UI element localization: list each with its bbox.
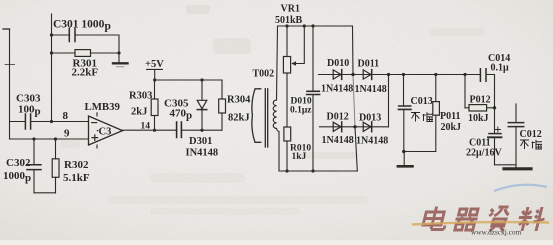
resistor R303 bbox=[154, 80, 156, 99]
capacitor C305 bbox=[177, 122, 182, 138]
wire rectifier row2 bbox=[320, 126, 389, 128]
wire VR1 top bar bbox=[278, 25, 353, 27]
wire row2 return up to row1 bbox=[388, 75, 390, 127]
watermark logo 电器资料 bbox=[422, 207, 548, 232]
diode D013 bbox=[363, 122, 371, 131]
label C012 (not fitted) Chinese vector bbox=[520, 140, 542, 149]
paper ghost smudges (decorative) bbox=[60, 5, 485, 215]
capacitor C014 bbox=[480, 69, 486, 82]
watermark underline swash bbox=[412, 222, 549, 224]
node junction D013 return on row1 bbox=[387, 73, 390, 76]
wire R301 row bbox=[52, 52, 76, 54]
op-amp U1 LMB39 / C3 bbox=[89, 116, 123, 145]
diode D011 bbox=[363, 70, 371, 79]
node junction cap branch top bbox=[311, 24, 314, 27]
wire op-amp output pin14 row bbox=[123, 129, 223, 131]
wire secondary bottom rail bbox=[279, 170, 357, 172]
capacitor D010 (0.1u) branch bbox=[312, 26, 314, 91]
wire R301 to ground corner bbox=[91, 52, 120, 54]
resistor P011 bbox=[435, 75, 437, 102]
diode D012 bbox=[333, 122, 341, 131]
watermark blue swoosh bbox=[494, 185, 547, 191]
wire C014/P012 right vertical bbox=[494, 75, 496, 134]
capacitor C301 bbox=[69, 29, 75, 42]
capacitor C011 electrolytic bbox=[489, 133, 501, 135]
node junction C301 row bbox=[50, 33, 53, 36]
power +5V tick bbox=[147, 68, 163, 70]
capacitor C013 bbox=[403, 75, 405, 106]
watermark char 料 bbox=[516, 207, 548, 231]
node junction C302 on pin9 bbox=[32, 137, 35, 140]
node junction R303 bottom bbox=[153, 129, 156, 132]
node junction cap branch bottom bbox=[311, 169, 314, 172]
node junction D301 bottom bbox=[200, 129, 203, 132]
node junction P012/C014 branch bbox=[463, 73, 466, 76]
resistor R302 bbox=[55, 139, 57, 159]
wire C013-P011 bottom connector bbox=[404, 151, 436, 153]
label C013 (not fitted) Chinese vector bbox=[411, 112, 433, 121]
node junction R301 row bbox=[50, 51, 53, 54]
wire P012 branch left vertical bbox=[464, 75, 466, 108]
capacitor C012 (dangling top) bbox=[515, 104, 517, 122]
node junction wiper top bbox=[303, 24, 306, 27]
node junction pot top bbox=[285, 24, 288, 27]
wire C011 bottom elbow bbox=[495, 164, 517, 166]
wire rectifier row1 bbox=[319, 74, 495, 76]
node junction feedback/ground bbox=[117, 51, 120, 54]
wire C301 row bbox=[52, 35, 120, 53]
diode D301 bbox=[201, 80, 203, 100]
node IN (left input terminal tick) bbox=[3, 28, 10, 30]
resistor P012 bbox=[465, 107, 495, 109]
wire pin8 row (C303 row to op-amp inverting input) bbox=[10, 121, 89, 123]
node junction +5V/R303 bbox=[153, 78, 156, 81]
wire +5V stem bbox=[154, 69, 156, 80]
node junction P012 right bbox=[493, 106, 496, 109]
transformer T002 core bbox=[265, 89, 267, 147]
capacitor C303 bbox=[25, 114, 30, 129]
ground (C013/P011) bbox=[403, 152, 405, 165]
wire C302-R302 bottom connector bbox=[34, 192, 56, 194]
node tick on input bus bbox=[5, 64, 15, 66]
watermark char 资 bbox=[486, 207, 511, 231]
diode D010 bbox=[333, 70, 341, 79]
resistor R010 bbox=[284, 127, 291, 141]
node junction C013 top bbox=[402, 73, 405, 76]
watermark char 器 bbox=[453, 209, 480, 230]
resistor R304 bbox=[221, 80, 223, 99]
potentiometer VR1 bbox=[286, 26, 288, 57]
wire pin9 row (to op-amp non-inverting input) bbox=[10, 138, 89, 140]
node junction C301-branch / pin8 wire bbox=[50, 120, 53, 123]
wire diode mid vertical (VR1 bar to bottom rail) bbox=[353, 26, 358, 171]
watermark char 电 bbox=[422, 207, 450, 230]
capacitor C302 bbox=[33, 139, 35, 164]
transformer T002 secondary winding bbox=[277, 26, 278, 100]
potentiometer VR1 wiper arrow bbox=[294, 26, 305, 64]
ground (output) bbox=[515, 165, 517, 168]
node junction R010 bottom bbox=[285, 169, 288, 172]
node junction row2 mid bbox=[353, 125, 356, 128]
node junction R302 on pin9 bbox=[54, 137, 57, 140]
node junction D301 top bbox=[200, 78, 203, 81]
node junction P011 top bbox=[434, 73, 437, 76]
resistor R301 bbox=[75, 50, 91, 57]
node junction row1 mid bbox=[351, 73, 354, 76]
wire left input vertical bus bbox=[9, 29, 11, 139]
ground (feedback network) bbox=[118, 53, 120, 62]
transformer T002 primary winding bbox=[252, 89, 261, 143]
wire +5V rail bbox=[155, 79, 223, 81]
wire C301/R301 feedback branch vertical bbox=[51, 14, 53, 122]
